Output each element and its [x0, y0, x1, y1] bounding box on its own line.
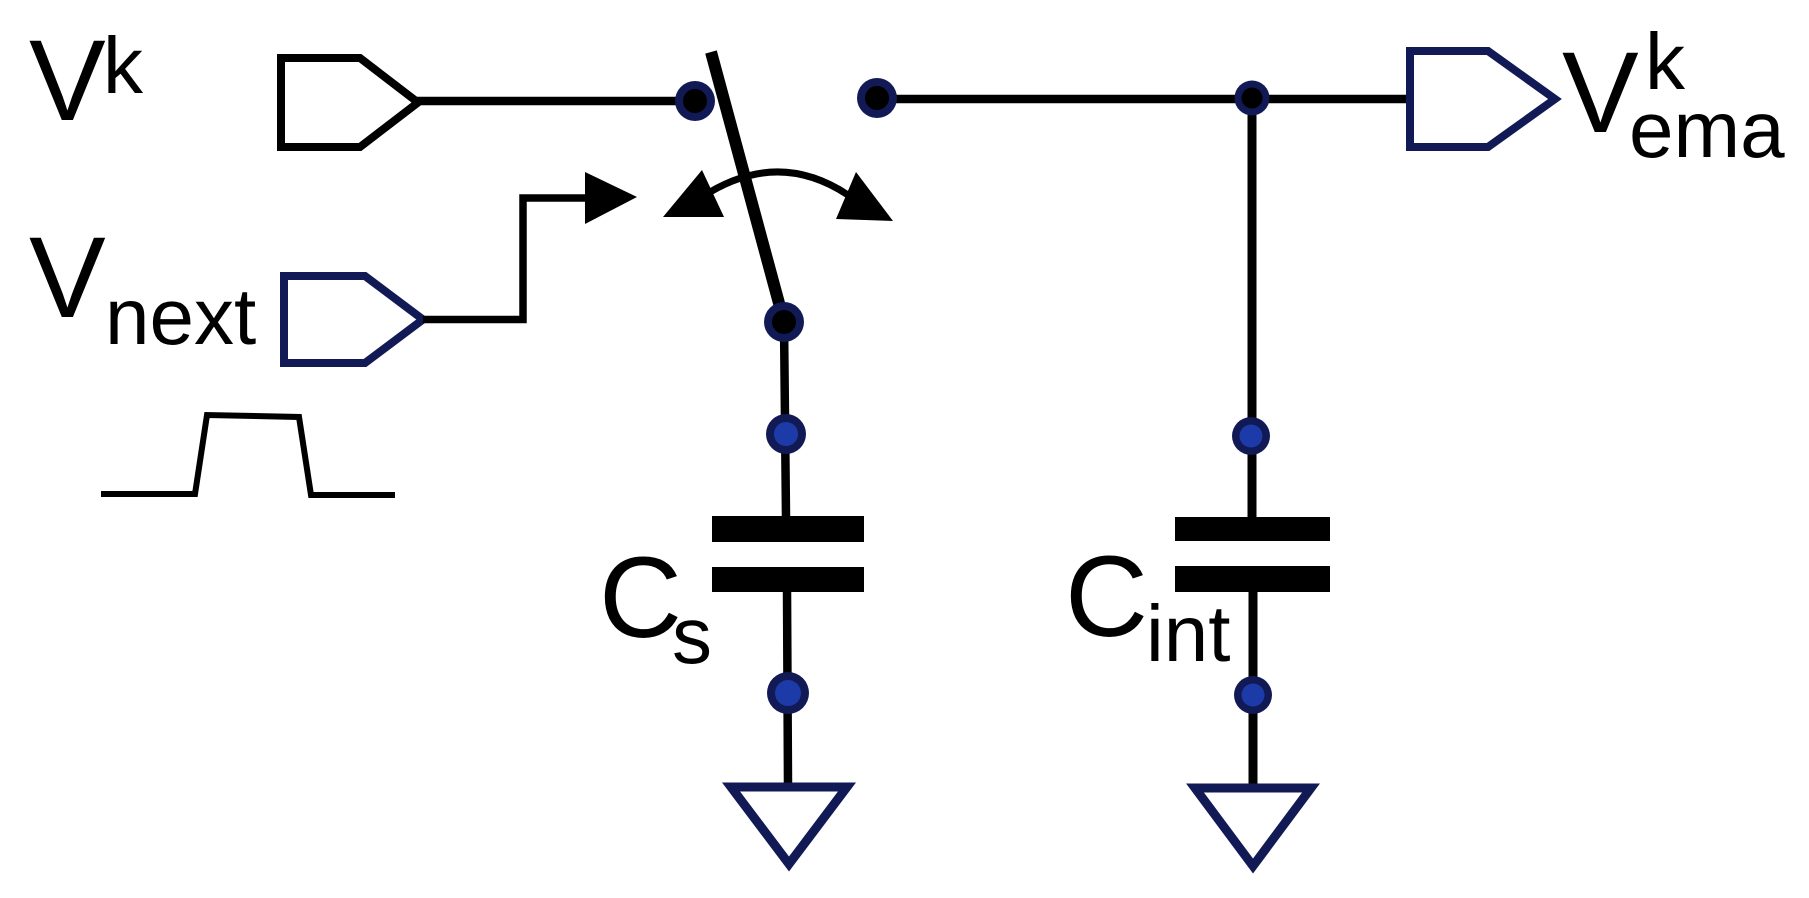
input port Vk	[281, 58, 418, 147]
node A (Vk side of switch)	[675, 81, 715, 121]
node G (Cint top)	[1232, 417, 1270, 455]
switch motion arc	[702, 172, 848, 197]
wire switch bottom to Cs	[784, 322, 786, 517]
capacitor Cint top plate	[1175, 517, 1330, 541]
label Cs	[599, 534, 712, 680]
wire Vnext control elbow	[423, 198, 586, 320]
switch S1 bar	[711, 52, 783, 318]
svg-text:V: V	[1562, 29, 1639, 157]
output port Vema	[1410, 51, 1555, 147]
capacitor Cs bottom plate	[712, 567, 864, 592]
ground GND2 (below Cint)	[1195, 788, 1311, 866]
svg-text:V: V	[29, 214, 106, 342]
capacitor Cs top plate	[712, 516, 864, 542]
label Vnext	[29, 214, 256, 361]
input port Vnext	[284, 276, 423, 363]
capacitor Cint bottom plate	[1175, 566, 1330, 592]
label Vema	[1562, 17, 1785, 174]
pulse waveform	[101, 415, 395, 495]
wire Vk to switch node	[415, 97, 695, 106]
node E (Cs bottom)	[767, 672, 809, 714]
switch arc left arrowhead	[663, 170, 724, 217]
svg-text:C: C	[599, 534, 682, 662]
arrowhead of Vnext control	[585, 172, 637, 224]
node F (T-junction)	[1235, 81, 1270, 116]
wire Cs bottom to ground	[787, 590, 788, 786]
node B (output side of switch)	[857, 78, 897, 118]
svg-text:s: s	[672, 591, 712, 680]
svg-text:next: next	[105, 272, 256, 361]
wire Cint bottom to ground	[1249, 590, 1258, 787]
svg-text:k: k	[103, 21, 144, 110]
svg-text:ema: ema	[1629, 85, 1785, 174]
wire T-junction down to Cint	[1248, 99, 1257, 517]
label Cint	[1065, 533, 1231, 678]
node C (switch bottom)	[764, 302, 804, 342]
svg-text:V: V	[29, 17, 106, 145]
wire node2 to output port	[877, 95, 1411, 104]
label Vk	[29, 17, 144, 145]
node H (Cint bottom)	[1234, 676, 1272, 714]
svg-text:int: int	[1146, 589, 1231, 678]
switch arc right arrowhead	[836, 172, 893, 221]
ground GND1 (below Cs)	[731, 787, 847, 864]
node D (Cs top)	[766, 414, 806, 454]
svg-text:C: C	[1065, 533, 1148, 661]
